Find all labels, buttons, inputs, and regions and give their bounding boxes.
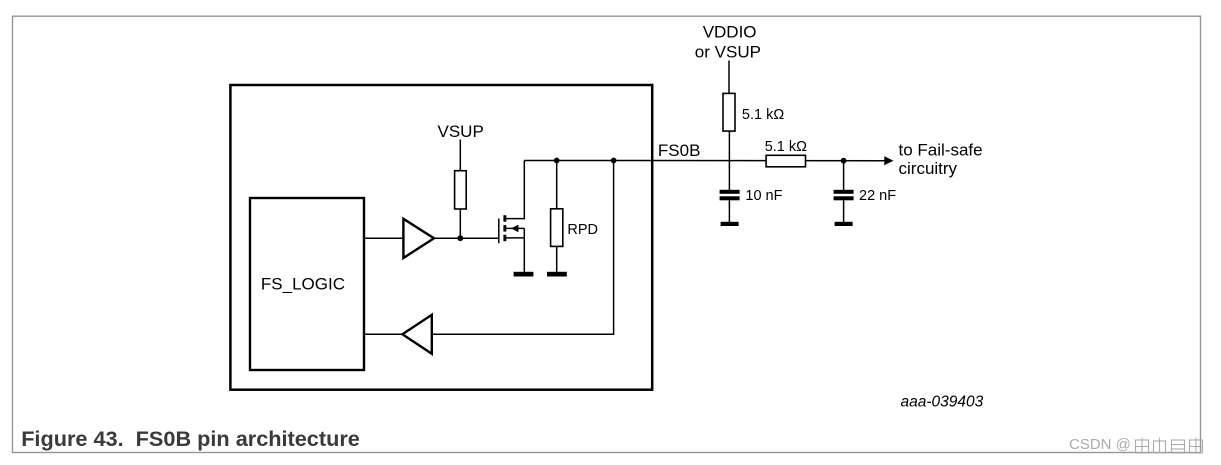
driver buffer A1 xyxy=(403,219,434,258)
FS_LOGIC block xyxy=(250,198,364,370)
wire VDDIO to R1 xyxy=(728,61,730,95)
node feedback junction xyxy=(611,158,617,164)
wire C2 to plates xyxy=(843,161,845,190)
receiver buffer A2 xyxy=(402,315,431,354)
svg-text:5.1 kΩ: 5.1 kΩ xyxy=(765,139,807,155)
ground C1 xyxy=(721,222,739,226)
ground C2 xyxy=(835,222,853,226)
wire rail to RPD xyxy=(556,161,558,210)
svg-text:22 nF: 22 nF xyxy=(859,188,896,204)
resistor RPD xyxy=(551,209,598,247)
resistor R1 5.1 kOhm pull-up xyxy=(723,93,784,131)
wire FS_LOGIC output to driver buffer xyxy=(364,237,403,239)
wire VSUP to pull-up resistor xyxy=(459,140,461,172)
ground RPD xyxy=(547,272,567,277)
svg-text:to Fail-safe: to Fail-safe xyxy=(899,141,983,160)
svg-text:FS_LOGIC: FS_LOGIC xyxy=(261,274,345,293)
svg-text:or VSUP: or VSUP xyxy=(695,42,761,61)
svg-text:Figure 43. FS0B pin architect: Figure 43. FS0B pin architecture xyxy=(21,426,360,451)
capacitor C1 10 nF xyxy=(720,188,783,222)
transistor M1 FS0B driver MOSFET xyxy=(499,161,525,273)
to Fail-safe circuitry label xyxy=(899,141,983,178)
wire RPD to ground xyxy=(556,246,558,272)
ground MOSFET source xyxy=(514,272,534,277)
wire resistor to gate node xyxy=(459,209,461,238)
wire R1 through rail to C1 xyxy=(728,131,730,190)
arrow to fail-safe circuitry xyxy=(884,156,893,165)
node gate/pull-up junction xyxy=(457,235,463,241)
svg-text:VDDIO: VDDIO xyxy=(703,23,757,42)
FS0B rail wire xyxy=(524,160,889,162)
svg-text:5.1 kΩ: 5.1 kΩ xyxy=(742,107,784,123)
svg-text:CSDN @: CSDN @ xyxy=(1069,436,1131,453)
svg-text:VSUP: VSUP xyxy=(438,122,484,141)
IC boundary box xyxy=(230,85,652,390)
wire receiver to FS_LOGIC xyxy=(364,333,402,335)
resistor R2 5.1 kOhm series xyxy=(765,139,807,167)
svg-text:circuitry: circuitry xyxy=(899,159,958,178)
svg-text:10 nF: 10 nF xyxy=(745,188,782,204)
node RPD junction xyxy=(554,158,560,164)
resistor VSUP pull-up xyxy=(455,171,467,209)
wire driver output to MOSFET gate xyxy=(434,237,499,239)
svg-text:FS0B: FS0B xyxy=(658,141,701,160)
node C2 junction xyxy=(841,158,847,164)
capacitor C2 22 nF xyxy=(834,188,897,222)
VDDIO or VSUP label xyxy=(695,23,761,62)
watermark CSDN @nanshanmoke xyxy=(1069,436,1203,453)
svg-text:aaa-039403: aaa-039403 xyxy=(901,394,984,411)
svg-text:RPD: RPD xyxy=(567,222,598,238)
wire feedback rail to receiver xyxy=(432,161,614,335)
